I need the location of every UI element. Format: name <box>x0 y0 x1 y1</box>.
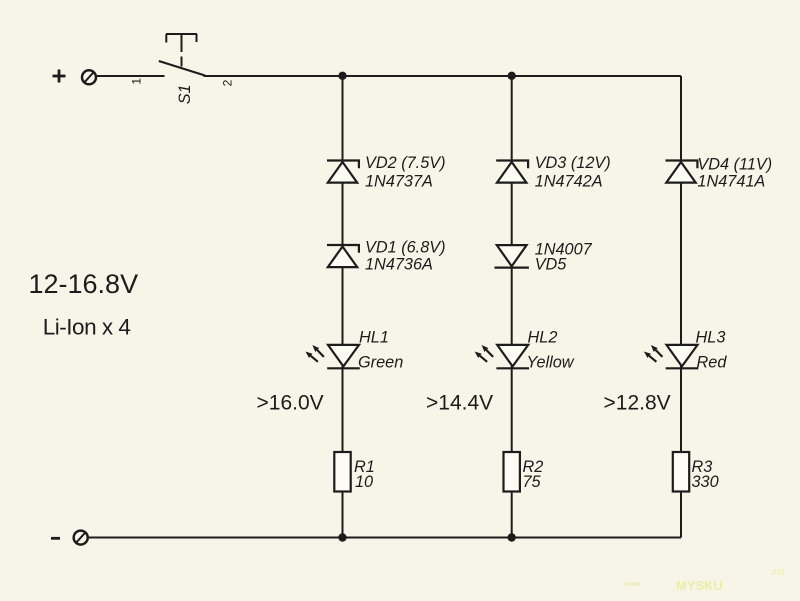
wire R2 bottom to bottom rail <box>511 492 513 538</box>
junction node A top of branch 1 <box>338 72 346 80</box>
svg-text:Red: Red <box>697 354 728 372</box>
svg-text:VD4 (11V): VD4 (11V) <box>697 156 772 174</box>
junction node C bottom of branch 1 <box>338 533 346 541</box>
svg-text:>14.4V: >14.4V <box>426 392 493 415</box>
wire R3 bottom to bottom rail <box>680 492 682 538</box>
svg-text:VD3 (12V): VD3 (12V) <box>535 154 611 172</box>
resistor R3 <box>673 452 689 492</box>
terminal X2 minus <box>51 531 88 545</box>
svg-text:2: 2 <box>221 79 235 86</box>
switch S1 <box>159 34 205 76</box>
zener diode VD4 <box>666 161 698 183</box>
bottom rail wire <box>88 537 681 539</box>
svg-text:.ru: .ru <box>770 566 784 578</box>
zener diode VD3 <box>496 161 528 183</box>
zener diode VD1 <box>327 245 359 267</box>
svg-text:1N4736A: 1N4736A <box>365 256 433 274</box>
svg-text:S1: S1 <box>176 84 194 104</box>
svg-text:Li-Ion x 4: Li-Ion x 4 <box>43 314 131 339</box>
wire branch 2 vertical <box>511 76 513 452</box>
svg-text:VD5: VD5 <box>535 256 568 274</box>
watermark <box>625 583 640 586</box>
svg-text:MYSKU: MYSKU <box>676 578 723 593</box>
svg-text:10: 10 <box>355 473 373 491</box>
svg-text:75: 75 <box>523 473 542 491</box>
svg-text:1: 1 <box>130 78 144 85</box>
svg-text:VD2 (7.5V): VD2 (7.5V) <box>365 154 446 172</box>
svg-text:HL1: HL1 <box>359 328 389 346</box>
wire plus terminal to switch pin 1 <box>96 75 164 77</box>
terminal X1 plus <box>53 70 97 85</box>
wire R1 bottom to bottom rail <box>342 492 344 538</box>
svg-text:HL2: HL2 <box>528 329 558 347</box>
wire branch 1 vertical <box>342 76 344 452</box>
zener diode VD2 <box>327 161 359 183</box>
svg-text:Yellow: Yellow <box>527 354 575 372</box>
LED HL2 <box>475 345 529 368</box>
LED HL3 <box>644 345 698 368</box>
svg-text:VD1 (6.8V): VD1 (6.8V) <box>365 239 446 257</box>
wire branch 3 vertical <box>680 76 682 452</box>
wire switch pin 2 to top right corner <box>204 75 682 77</box>
svg-text:Green: Green <box>358 354 403 372</box>
resistor R2 <box>504 452 520 492</box>
svg-text:1N4741A: 1N4741A <box>697 173 765 191</box>
svg-text:>12.8V: >12.8V <box>604 392 671 415</box>
svg-text:HL3: HL3 <box>696 328 726 346</box>
svg-text:330: 330 <box>692 473 719 491</box>
diode VD5 <box>495 245 529 268</box>
junction node D bottom of branch 2 <box>508 533 516 541</box>
svg-text:1N4737A: 1N4737A <box>365 172 433 190</box>
svg-text:12-16.8V: 12-16.8V <box>29 269 139 299</box>
junction node B top of branch 2 <box>508 72 516 80</box>
LED HL1 <box>305 345 359 368</box>
resistor R1 <box>334 452 350 492</box>
svg-text:1N4742A: 1N4742A <box>535 172 603 190</box>
svg-text:>16.0V: >16.0V <box>257 391 324 414</box>
